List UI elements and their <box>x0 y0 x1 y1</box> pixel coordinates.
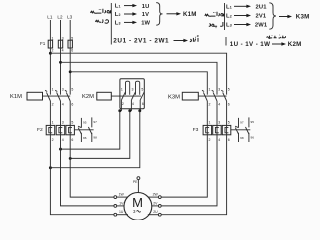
persian word setareh (star) right group <box>205 12 224 17</box>
legend left arrow to K1M <box>167 13 177 15</box>
svg-text:K3M: K3M <box>296 14 310 21</box>
wire K3M actuator link <box>198 95 226 97</box>
svg-text:F2: F2 <box>37 127 43 133</box>
legend right brace <box>269 3 276 29</box>
overload relay F2 pole 2 pins 3-4 <box>56 120 64 142</box>
svg-text:1V: 1V <box>119 201 124 205</box>
motor 3-phase mark <box>133 209 141 214</box>
svg-text:5: 5 <box>141 87 143 91</box>
svg-text:2V1: 2V1 <box>256 14 267 20</box>
node K2M outlet 4 <box>128 109 131 112</box>
svg-text:3: 3 <box>218 120 220 124</box>
overload F2 aux contact 95-96 <box>78 118 87 142</box>
overload F3 aux contact 97-98 <box>246 117 255 142</box>
svg-text:M: M <box>132 195 143 210</box>
legend left brace <box>156 3 162 26</box>
svg-text:2: 2 <box>209 138 211 142</box>
overload relay F3 pole 1 pins 1-2 <box>203 120 212 142</box>
svg-text:4: 4 <box>62 138 64 142</box>
svg-text:5: 5 <box>228 120 230 124</box>
wire branch L3 to K3M pole 1 <box>70 72 207 95</box>
svg-text:K3M: K3M <box>168 95 180 101</box>
persian word dobl (double) right group <box>209 22 223 28</box>
svg-text:5: 5 <box>228 88 230 92</box>
node L1 branch junction <box>49 52 52 55</box>
svg-text:2U1: 2U1 <box>256 5 268 11</box>
terminal 2U circle and label <box>148 210 161 216</box>
svg-text:K1M: K1M <box>10 94 22 100</box>
node tap junction on 1W line <box>69 157 72 160</box>
node K2M outlet 2 <box>118 109 121 112</box>
svg-text:3: 3 <box>132 87 134 91</box>
contactor K3M main contact 3-4 <box>212 88 221 126</box>
svg-text:1: 1 <box>52 36 54 40</box>
svg-text:F1: F1 <box>40 41 46 46</box>
legend right arrow to K3M <box>279 16 288 18</box>
svg-text:1: 1 <box>209 88 211 92</box>
legend left group: star/series connection table <box>91 3 199 45</box>
legend left separator bar <box>110 3 112 45</box>
wire F3 pole2 down to motor 2V <box>161 139 217 206</box>
terminal 2W circle and label <box>148 193 161 199</box>
persian word seri (series) left group <box>95 19 108 23</box>
svg-text:4: 4 <box>62 102 64 106</box>
wire L1 down to fuse <box>49 20 51 40</box>
contactor K1M main contact 5-6 <box>65 88 74 126</box>
overload F2 aux contact 97-98 <box>88 117 97 142</box>
svg-text:L2: L2 <box>57 15 63 20</box>
contactor K3M coil <box>182 92 198 100</box>
svg-text:2U1 - 2V1 - 2W1: 2U1 - 2V1 - 2W1 <box>113 38 169 45</box>
svg-text:PE: PE <box>133 180 138 184</box>
terminal 1W circle and label <box>114 193 128 199</box>
svg-text:3: 3 <box>218 88 220 92</box>
svg-text:1W: 1W <box>119 193 125 197</box>
svg-text:5: 5 <box>71 88 73 92</box>
wire fuse2 down to K1M contact 3 <box>60 48 62 95</box>
terminal 2V circle and label <box>152 201 161 207</box>
persian words ettesal kutah (short circuit) <box>267 35 286 39</box>
svg-text:K1M: K1M <box>183 11 197 18</box>
wire fuse3 down to K1M contact 5 <box>69 48 71 95</box>
svg-text:2W1: 2W1 <box>255 23 268 29</box>
svg-text:97: 97 <box>93 120 97 124</box>
wire F2 pole3 down to motor 1W <box>70 139 114 198</box>
svg-text:98: 98 <box>240 136 244 140</box>
wire K2M actuator link <box>111 95 141 97</box>
svg-text:L1: L1 <box>47 15 53 20</box>
svg-text:3: 3 <box>62 88 64 92</box>
svg-text:4: 4 <box>62 49 64 53</box>
wire F2 pole2 down to motor 1V <box>61 139 115 206</box>
svg-text:2: 2 <box>52 138 54 142</box>
node tap junction on 1U line <box>49 166 52 169</box>
svg-text:95: 95 <box>83 121 87 125</box>
svg-text:1: 1 <box>209 120 211 124</box>
fuse F1 pole 2 with pins 3-4 <box>58 36 63 52</box>
wire K2M outlet 6 tap to phase 1U line <box>50 111 139 168</box>
wire K2M outlet 4 tap to phase 1W line <box>70 111 130 159</box>
wire K1M actuator link <box>43 95 71 97</box>
svg-text:2U: 2U <box>153 210 158 214</box>
svg-text:1U: 1U <box>119 210 124 214</box>
legend row L1 to 2U1 <box>226 4 267 10</box>
legend row L3 to 1W <box>115 20 151 26</box>
wire F3 pole3 down to motor 2U <box>161 139 227 215</box>
contactor K2M bridge loop b <box>136 81 140 95</box>
svg-text:1U: 1U <box>142 4 150 10</box>
terminal 1U circle and label <box>114 210 128 216</box>
overload relay F2 pole 3 pins 5-6 <box>66 120 75 142</box>
svg-text:6: 6 <box>71 102 73 106</box>
svg-text:96: 96 <box>251 136 255 140</box>
overload relay F2 pole 1 pins 1-2 <box>46 120 55 142</box>
legend right bottom bar <box>225 37 227 46</box>
svg-text:K2M: K2M <box>288 41 302 48</box>
terminal 1V circle and label <box>114 201 124 207</box>
svg-text:6: 6 <box>228 102 230 106</box>
svg-text:6: 6 <box>228 138 230 142</box>
wire fuse1 down to K1M contact 1 <box>49 48 51 95</box>
svg-text:6: 6 <box>142 102 144 106</box>
wire branch L2 to K3M pole 3 <box>61 62 218 94</box>
svg-text:F3: F3 <box>193 127 199 133</box>
svg-text:97: 97 <box>240 121 244 125</box>
wire branch L1 to K3M pole 5 <box>50 53 226 94</box>
overload relay F3 pole 2 pins 3-4 <box>213 120 222 142</box>
legend row L2 to 2V1 <box>226 14 267 20</box>
overload F3 aux contact 95-96 <box>235 118 244 142</box>
legend row L2 to 1V <box>115 12 149 18</box>
svg-text:98: 98 <box>93 136 97 140</box>
legend right group: star/double-star connection table <box>205 3 310 48</box>
svg-text:K2M: K2M <box>82 94 94 100</box>
svg-text:4: 4 <box>218 138 220 142</box>
wire L2 down to fuse <box>60 20 62 40</box>
svg-text:1: 1 <box>52 120 54 124</box>
svg-text:1V: 1V <box>142 12 149 18</box>
wire F2 pole1 down to motor 1U <box>50 139 114 215</box>
motor M1 body <box>124 193 152 221</box>
contactor K1M main contact 3-4 <box>55 88 64 126</box>
wire F3 trip linkage <box>231 129 251 131</box>
terminal PE circle label and stub <box>133 177 140 193</box>
contactor K3M main contact 1-2 <box>202 88 211 126</box>
svg-text:L3: L3 <box>67 15 73 20</box>
overload relay F3 pole 3 pins 5-6 <box>222 120 231 142</box>
wire K2M outlet 2 tap to phase 1V line <box>61 111 120 149</box>
contactor K2M bridge loop a <box>126 81 130 95</box>
svg-text:5: 5 <box>71 36 73 40</box>
fuse F1 pole 3 with pins 5-6 <box>68 36 73 52</box>
contactor K1M coil <box>27 92 43 100</box>
contactor K3M main contact 5-6 <box>221 88 230 126</box>
node K2M outlet 6 <box>138 109 141 112</box>
contactor K2M coil <box>97 92 112 100</box>
node tap junction on 1V line <box>59 148 62 151</box>
legend row L3 to 2W1 <box>226 23 268 29</box>
svg-text:4: 4 <box>132 102 134 106</box>
svg-text:6: 6 <box>71 49 73 53</box>
supply phase labels L1 L2 L3 <box>47 15 72 20</box>
contactor K2M contact 5-6 <box>140 87 145 110</box>
svg-text:1: 1 <box>121 87 123 91</box>
fuse F1 pole 1 with pins 1-2 <box>48 36 53 52</box>
wire F2 trip linkage <box>74 129 93 131</box>
wire F3 pole1 down to motor 2W <box>161 139 207 198</box>
svg-text:3: 3 <box>62 120 64 124</box>
svg-text:95: 95 <box>251 120 255 124</box>
wire L3 down to fuse <box>69 20 71 40</box>
svg-text:1U - 1V - 1W: 1U - 1V - 1W <box>230 41 271 48</box>
svg-text:4: 4 <box>218 102 220 106</box>
svg-text:2: 2 <box>209 102 211 106</box>
node L2 branch junction <box>59 61 62 64</box>
svg-text:5: 5 <box>71 120 73 124</box>
persian word azad (free) <box>190 36 199 42</box>
contactor K2M bridge bar enclosure <box>120 79 144 109</box>
node L3 branch junction <box>69 70 72 73</box>
persian word setareh (star) left group <box>91 9 111 14</box>
contactor K1M main contact 1-2 <box>45 88 54 126</box>
svg-text:1: 1 <box>52 88 54 92</box>
contactor K2M contact 3-4 <box>130 87 136 110</box>
svg-text:2: 2 <box>122 102 124 106</box>
svg-text:96: 96 <box>83 136 87 140</box>
svg-text:2W: 2W <box>153 193 159 197</box>
svg-text:2: 2 <box>52 49 54 53</box>
svg-text:1W: 1W <box>141 21 150 27</box>
legend row L1 to 1U <box>115 4 150 10</box>
svg-text:2V: 2V <box>153 201 158 205</box>
svg-text:6: 6 <box>71 138 73 142</box>
contactor K2M contact 1-2 <box>120 87 126 110</box>
svg-text:3: 3 <box>62 36 64 40</box>
legend right separator bar <box>224 3 226 30</box>
svg-text:2: 2 <box>52 102 54 106</box>
